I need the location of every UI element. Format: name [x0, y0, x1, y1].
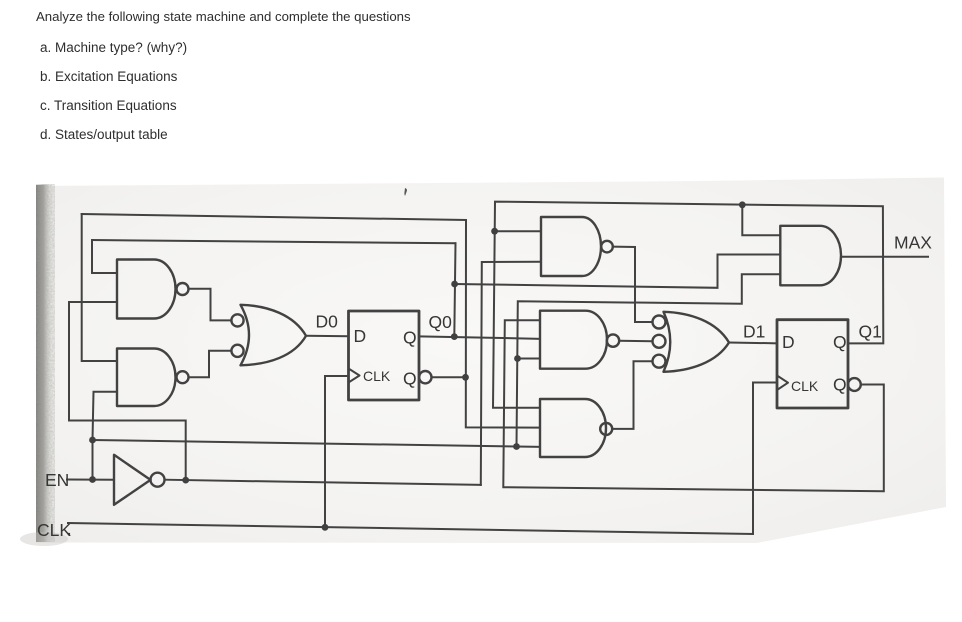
wire CLK up to FF1: [325, 376, 349, 527]
wire Q0 to AND input B: [455, 255, 781, 288]
and gate (MAX): [780, 226, 841, 285]
svg-text:Q: Q: [403, 369, 417, 389]
wire Q0 feedback bus: [92, 240, 456, 243]
wire EN-bar up to NAND-top input B: [481, 262, 541, 485]
svg-text:Q: Q: [833, 332, 847, 352]
junction EN at inverter input: [89, 476, 96, 483]
question d: [40, 127, 168, 142]
wire NAND-bot output to OR2: [612, 361, 652, 429]
nand gate G5 (bottom middle): [540, 399, 606, 457]
junction Q1 bus to AND: [739, 201, 746, 208]
nand gate G3 (top middle): [541, 217, 601, 276]
wire NAND1 output to OR1: [189, 289, 232, 321]
title text: [36, 9, 411, 24]
wire vertical to NAND1 input A: [92, 240, 117, 273]
D flip-flop FF2: [777, 320, 848, 408]
nand gate G4 (mid middle): [540, 311, 607, 369]
wire vertical to NAND2 input A: [82, 214, 117, 361]
wire D1: [729, 342, 777, 345]
junction EN-bar line: [182, 477, 189, 484]
wire Q1 from FF2 up to top bus: [493, 202, 883, 408]
svg-text:Q1: Q1: [859, 322, 882, 342]
nand gate G2: [117, 349, 175, 407]
wire EN bus: [93, 440, 517, 447]
junction Q-bar0: [462, 374, 469, 381]
D flip-flop FF1: [349, 311, 420, 400]
junction Q1 to NAND G3: [491, 228, 498, 235]
small ink speck: [404, 188, 407, 196]
svg-text:MAX: MAX: [894, 233, 932, 253]
svg-text:Q: Q: [833, 375, 847, 395]
wire NAND1 input B from EN-bar: [69, 302, 186, 480]
scan left dark band: [36, 184, 54, 542]
wire Q-bar1 from FF2 to NAND-mid input 1: [503, 320, 884, 491]
wire Q0 output to NAND-mid: [419, 336, 540, 338]
wire EN input lead: [67, 479, 114, 481]
svg-text:CLK: CLK: [791, 378, 819, 394]
junction EN bus tap: [89, 437, 96, 444]
wire Q0 branch up: [454, 243, 455, 336]
wire NAND-top output to OR2: [613, 247, 652, 322]
scanned photo background: [36, 178, 946, 544]
question b: [40, 69, 177, 84]
svg-text:D1: D1: [743, 322, 765, 342]
bottom-left corner smudge: [20, 532, 68, 546]
nand gate G1: [117, 260, 175, 319]
or gate OR2: [664, 312, 730, 372]
wire CLK up to FF2: [753, 383, 777, 535]
wire CLK bus: [68, 523, 753, 534]
junction EN bus to NAND G5: [513, 443, 520, 450]
wire Q-bar0 vertical to NAND-bot input 2: [466, 220, 540, 428]
wire EN to NAND-bot input 3: [517, 446, 541, 448]
wire EN up to NAND2 input B: [93, 392, 118, 480]
junction Q0 output: [451, 333, 458, 340]
question c: [40, 98, 177, 113]
question a: [40, 40, 187, 55]
wire Q1 branch to AND input A: [742, 205, 780, 236]
junction Q0 to AND branch: [451, 281, 458, 288]
svg-text:CLK: CLK: [363, 368, 391, 384]
junction EN to NAND G4: [514, 355, 521, 362]
wire EN up branch to bus: [517, 274, 781, 446]
wire Q-bar0 from FF1: [432, 376, 466, 378]
wire EN to NAND-mid input 3: [518, 358, 541, 360]
svg-text:Q0: Q0: [429, 312, 453, 332]
svg-text:EN: EN: [45, 470, 69, 490]
wire Q-bar0 top feedback bus: [82, 214, 466, 220]
wire NAND2 output to OR1: [189, 351, 232, 377]
wire NAND-mid output to OR2: [619, 340, 652, 342]
or gate OR1: [241, 305, 307, 366]
junction CLK to FF1: [322, 524, 329, 531]
wire Q1 to NAND-top input A: [495, 230, 541, 232]
wire MAX output: [841, 256, 928, 258]
wire EN-bar line from inverter: [165, 480, 481, 485]
inverter (EN): [114, 455, 151, 505]
wire D0: [306, 335, 349, 338]
svg-text:D: D: [782, 332, 795, 352]
svg-text:Q: Q: [403, 328, 417, 348]
svg-text:D: D: [354, 326, 367, 346]
svg-text:D0: D0: [316, 312, 339, 332]
svg-text:CLK: CLK: [37, 520, 71, 540]
